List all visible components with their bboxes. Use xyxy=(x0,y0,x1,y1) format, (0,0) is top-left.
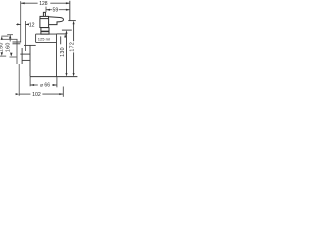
svg-text:150: 150 xyxy=(0,42,4,52)
svg-text:130: 130 xyxy=(60,47,66,57)
svg-text:128: 128 xyxy=(39,1,48,7)
holder ext v2 xyxy=(24,21,26,51)
dia66 ext right xyxy=(56,77,58,88)
arrow 130 top xyxy=(66,30,68,34)
arrow 172 bottom xyxy=(73,73,75,77)
svg-text:125 ml: 125 ml xyxy=(38,36,50,41)
left inner dim tick top xyxy=(7,34,13,36)
arrow left inner bottom xyxy=(10,53,12,57)
svg-text:172: 172 xyxy=(70,42,76,52)
bottle top extension right xyxy=(57,33,67,35)
pump cap xyxy=(40,16,49,18)
arrow 128 left xyxy=(21,2,25,4)
extension line right wall xyxy=(69,1,71,21)
dim 12 outside tails xyxy=(16,23,21,25)
svg-text:59: 59 xyxy=(53,8,59,14)
baseline floor xyxy=(30,76,77,78)
arrow at bottle top ext xyxy=(64,34,66,38)
spout arm xyxy=(49,17,64,25)
holder h3 xyxy=(13,43,21,45)
left outer dim tick bottom xyxy=(0,55,6,57)
left inner dim line bottom xyxy=(10,53,12,56)
holder h5 xyxy=(20,53,30,55)
label box left xyxy=(35,34,37,42)
left outer dim tick top xyxy=(1,35,8,37)
dim 130 line xyxy=(66,33,68,74)
holder ring top left h4 xyxy=(24,44,36,46)
bottle right edge xyxy=(56,34,58,77)
arrow left outer top xyxy=(1,36,3,40)
holder level tick right xyxy=(62,29,72,31)
holder v3 xyxy=(21,48,23,64)
arrow 12 left outside xyxy=(17,23,21,25)
dim 128 line xyxy=(21,2,38,4)
arrow 172 top xyxy=(73,21,75,25)
svg-text:⌀ 66: ⌀ 66 xyxy=(40,82,50,88)
arrow left inner top xyxy=(9,35,11,39)
left tick h1 xyxy=(3,38,18,40)
pump collar xyxy=(41,28,49,35)
bottle top / label box top xyxy=(36,33,57,35)
extension line left v1 xyxy=(20,1,22,42)
left inner dim tick bottom xyxy=(10,56,17,58)
arrow 128 right xyxy=(66,2,70,4)
pump body xyxy=(40,19,49,28)
dia66 ext left xyxy=(29,77,31,87)
ext 102 left v4 xyxy=(16,39,18,64)
svg-text:160: 160 xyxy=(6,42,12,52)
arrow left outer bottom xyxy=(1,52,3,56)
holder h2 xyxy=(13,41,22,43)
arrow 102 left xyxy=(16,93,20,95)
dim102 right ext xyxy=(62,87,64,97)
dim 59 line xyxy=(46,9,52,11)
bracket top tick xyxy=(68,20,76,22)
collar bar xyxy=(41,30,49,32)
bottle left edge xyxy=(29,45,31,76)
left inner dim line top xyxy=(9,35,11,42)
arrow dia66 left xyxy=(30,84,34,86)
arrow 130 bottom xyxy=(66,73,68,77)
svg-text:102: 102 xyxy=(32,92,41,98)
ring right v6 xyxy=(60,36,62,44)
dim 59 ext line xyxy=(45,7,47,13)
arrow 59 right xyxy=(66,9,70,11)
arrow 59 left xyxy=(46,9,50,11)
dia66 dim line xyxy=(30,84,38,86)
arrow 102 right xyxy=(59,93,63,95)
label box bottom xyxy=(36,41,57,43)
arrow 12 right outside xyxy=(25,23,29,25)
dim102 line xyxy=(19,93,30,95)
pump plunger xyxy=(43,12,45,16)
arrow dia66 right xyxy=(53,84,57,86)
svg-text:12: 12 xyxy=(29,22,35,28)
holder h6 xyxy=(22,59,30,61)
dim 172 line xyxy=(73,24,75,42)
